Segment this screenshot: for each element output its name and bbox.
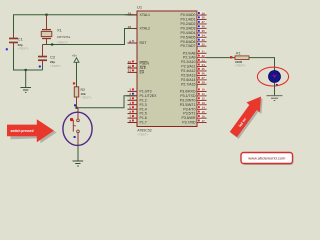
- svg-text:<TEXT>: <TEXT>: [50, 64, 61, 68]
- svg-text:P0.4/AD4: P0.4/AD4: [181, 31, 196, 35]
- svg-text:<TEXT>: <TEXT>: [57, 41, 68, 45]
- svg-text:P1.7: P1.7: [140, 121, 147, 125]
- node XTAL2-net junction dot: [51, 43, 53, 45]
- resistor R2: [74, 87, 92, 108]
- svg-text:www.aticleworld.com: www.aticleworld.com: [248, 156, 286, 161]
- ground (left): [20, 88, 31, 93]
- svg-text:P0.5/AD5: P0.5/AD5: [181, 35, 196, 39]
- wire P1.1 to switch: [77, 96, 138, 108]
- pin 9 (RST): [128, 39, 148, 45]
- wire LED to ground: [274, 83, 276, 96]
- node crystal-top junction: [45, 14, 47, 16]
- svg-text:P1.2: P1.2: [140, 98, 147, 102]
- annotation circle around switch: [63, 112, 92, 145]
- svg-text:24: 24: [202, 63, 206, 67]
- pin 24 (P2.3/A11): [181, 63, 206, 69]
- svg-text:PSEN: PSEN: [140, 62, 150, 66]
- pin 21 (P2.0/A8): [183, 50, 206, 56]
- ground (LED): [267, 96, 283, 101]
- svg-text:P0.1/AD1: P0.1/AD1: [181, 18, 196, 22]
- pin 33 (P0.6/AD6): [181, 38, 207, 44]
- chip U1 body: [137, 11, 197, 127]
- pin 11 (P3.1/TXD): [180, 92, 206, 98]
- svg-text:P3.5/T1: P3.5/T1: [183, 112, 195, 116]
- svg-text:<TEXT>: <TEXT>: [81, 96, 92, 100]
- svg-text:P2.7/A15: P2.7/A15: [181, 82, 195, 86]
- svg-text:35: 35: [202, 29, 206, 33]
- pin 25 (P2.4/A12): [181, 67, 206, 73]
- pin 31 (EA): [128, 69, 145, 75]
- svg-text:P3.7/RD: P3.7/RD: [182, 121, 196, 125]
- svg-text:ALE: ALE: [140, 66, 147, 70]
- capacitor C2: [38, 45, 61, 68]
- svg-text:39: 39: [202, 11, 206, 15]
- pin 34 (P0.5/AD5): [181, 34, 207, 40]
- svg-text:11: 11: [202, 92, 206, 96]
- pin 15 (P3.5/T1): [183, 110, 206, 116]
- watermark www.aticleworld.com: [241, 153, 294, 166]
- LED D1: [269, 71, 281, 87]
- svg-text:<TEXT>: <TEXT>: [18, 47, 29, 51]
- pin 19 (XTAL1): [128, 11, 150, 17]
- pin 38 (P0.1/AD1): [181, 16, 207, 22]
- wire overlay XTAL1: [125, 14, 134, 16]
- resistor R1: [235, 51, 250, 67]
- pin 37 (P0.2/AD2): [181, 20, 207, 26]
- svg-text:P3.3/INT1: P3.3/INT1: [180, 103, 196, 107]
- svg-text:38: 38: [202, 16, 206, 20]
- svg-text:P0.2/AD2: P0.2/AD2: [181, 22, 196, 26]
- svg-text:33: 33: [202, 38, 206, 42]
- wire XTAL1 net (top horizontal): [14, 15, 138, 38]
- pin 5 (P1.4): [128, 106, 147, 112]
- svg-text:30: 30: [128, 64, 132, 68]
- svg-text:C2: C2: [50, 55, 56, 60]
- pin 32 (P0.7/AD7): [181, 42, 207, 48]
- wire overlay P1.1: [126, 95, 134, 97]
- svg-text:CRYSTAL: CRYSTAL: [57, 35, 71, 39]
- pin 26 (P2.5/A13): [181, 72, 206, 78]
- wire overlay XTAL2: [125, 28, 134, 30]
- svg-text:17: 17: [202, 119, 206, 123]
- pin 3 (P1.2): [128, 97, 147, 103]
- svg-text:P3.0/RXD: P3.0/RXD: [180, 90, 196, 94]
- svg-text:P3.6/WR: P3.6/WR: [181, 116, 195, 120]
- svg-text:15: 15: [202, 110, 206, 114]
- pin 39 (P0.0/AD0): [181, 11, 207, 17]
- node switch junction: [75, 107, 77, 109]
- annotation arrow "switch pressed": [7, 119, 57, 143]
- svg-text:P2.5/A13: P2.5/A13: [181, 73, 195, 77]
- node ground-rail junction: [25, 69, 27, 71]
- pin 2 (P1.1/T2EX): [128, 92, 158, 98]
- svg-text:P0.0/AD0: P0.0/AD0: [181, 13, 196, 17]
- pin 13 (P3.3/INT1): [180, 101, 207, 107]
- svg-text:16: 16: [202, 114, 206, 118]
- svg-text:swtich pressed: swtich pressed: [10, 129, 33, 133]
- svg-text:31: 31: [128, 69, 132, 73]
- svg-text:RST: RST: [140, 41, 148, 45]
- svg-text:37: 37: [202, 20, 206, 24]
- wire R1 to LED: [249, 58, 275, 71]
- switch SW1 (push button): [70, 108, 79, 145]
- svg-text:34: 34: [202, 34, 206, 38]
- svg-text:27: 27: [202, 76, 206, 80]
- svg-text:22: 22: [202, 54, 206, 58]
- pin 28 (P2.7/A15): [181, 81, 206, 87]
- svg-text:<TEXT>: <TEXT>: [235, 64, 246, 68]
- power +5v: [72, 53, 79, 86]
- svg-text:<TEXT>: <TEXT>: [137, 132, 148, 136]
- svg-text:10: 10: [202, 88, 206, 92]
- wire XTAL2 net: [43, 29, 138, 45]
- svg-text:P2.3/A11: P2.3/A11: [181, 65, 195, 69]
- svg-text:P2.0/A8: P2.0/A8: [183, 51, 196, 55]
- wire P2.1 to R1: [207, 57, 236, 59]
- node R2-top logic-high dot: [73, 82, 75, 84]
- svg-text:P0.3/AD3: P0.3/AD3: [181, 26, 196, 30]
- svg-text:23: 23: [202, 58, 206, 62]
- wire C2 bottom: [42, 60, 44, 70]
- capacitor C1: [6, 33, 29, 51]
- svg-text:U1: U1: [137, 5, 143, 10]
- svg-text:P1.4: P1.4: [140, 107, 147, 111]
- svg-text:XTAL1: XTAL1: [140, 13, 150, 17]
- svg-text:+5v: +5v: [72, 53, 77, 57]
- wire C1 bottom to ground rail: [14, 44, 43, 71]
- svg-text:14: 14: [202, 106, 206, 110]
- wire switch to ground: [77, 145, 79, 161]
- pin 22 (P2.1/A9): [183, 54, 206, 60]
- svg-text:P2.6/A14: P2.6/A14: [181, 78, 195, 82]
- svg-text:P1.1/T2EX: P1.1/T2EX: [140, 94, 158, 98]
- pin 6 (P1.5): [128, 110, 147, 116]
- pin 36 (P0.3/AD3): [181, 25, 207, 31]
- pin 1 (P1.0/T2): [128, 88, 152, 94]
- node LED-net logic-high dot: [230, 56, 232, 58]
- pin 7 (P1.6): [128, 114, 147, 120]
- pin 4 (P1.3): [128, 101, 147, 107]
- svg-text:EA: EA: [140, 71, 145, 75]
- svg-text:P1.0/T2: P1.0/T2: [140, 90, 152, 94]
- pin 12 (P3.2/INT0): [180, 97, 207, 103]
- svg-text:21: 21: [202, 50, 206, 54]
- pin 16 (P3.6/WR): [181, 114, 206, 120]
- pin 30 (ALE): [128, 64, 147, 70]
- annotation ellipse around LED: [257, 67, 288, 86]
- svg-text:26: 26: [202, 72, 206, 76]
- svg-text:P2.1/A9: P2.1/A9: [183, 56, 196, 60]
- pin 17 (P3.7/RD): [182, 119, 206, 125]
- svg-text:25: 25: [202, 67, 206, 71]
- svg-text:R1: R1: [236, 51, 241, 55]
- svg-text:P1.3: P1.3: [140, 103, 147, 107]
- svg-text:P1.6: P1.6: [140, 116, 147, 120]
- svg-text:P3.2/INT0: P3.2/INT0: [180, 98, 196, 102]
- svg-text:P0.6/AD6: P0.6/AD6: [181, 40, 196, 44]
- svg-text:P1.5: P1.5: [140, 112, 147, 116]
- pin 14 (P3.4/T0): [183, 106, 206, 112]
- pin 23 (P2.2/A10): [181, 58, 206, 64]
- pin 8 (P1.7): [128, 119, 147, 125]
- svg-text:X1: X1: [57, 28, 63, 33]
- svg-text:XTAL2: XTAL2: [140, 27, 150, 31]
- pin 10 (P3.0/RXD): [180, 88, 207, 94]
- svg-text:28: 28: [202, 81, 206, 85]
- svg-text:P2.4/A12: P2.4/A12: [181, 69, 195, 73]
- pin 27 (P2.6/A14): [181, 76, 206, 82]
- svg-text:32: 32: [202, 42, 206, 46]
- crystal X1: [41, 15, 70, 45]
- svg-text:12: 12: [202, 97, 206, 101]
- pin 18 (XTAL2): [128, 25, 150, 31]
- pin 35 (P0.4/AD4): [181, 29, 207, 35]
- svg-text:13: 13: [202, 101, 206, 105]
- svg-text:36: 36: [202, 25, 206, 29]
- svg-text:P3.4/T0: P3.4/T0: [183, 107, 195, 111]
- svg-text:P3.1/TXD: P3.1/TXD: [180, 94, 196, 98]
- pin 29 (PSEN): [128, 60, 150, 66]
- svg-text:C1: C1: [18, 37, 24, 42]
- svg-text:29: 29: [128, 60, 132, 64]
- ground (switch): [73, 161, 84, 166]
- svg-text:P2.2/A10: P2.2/A10: [181, 60, 195, 64]
- annotation arrow "led on": [227, 92, 270, 141]
- svg-text:P0.7/AD7: P0.7/AD7: [181, 44, 196, 48]
- wire ground drop: [25, 70, 27, 87]
